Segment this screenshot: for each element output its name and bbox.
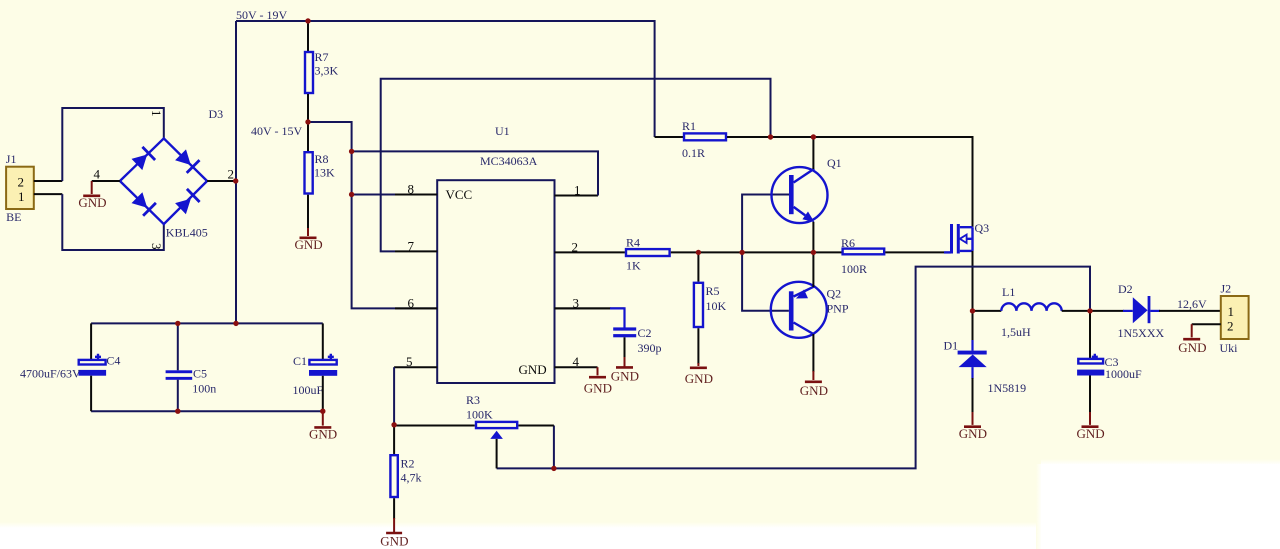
- connector J2: [1221, 296, 1249, 339]
- svg-text:R5: R5: [706, 284, 720, 298]
- resistor R7: [305, 52, 313, 93]
- svg-text:12,6V: 12,6V: [1177, 297, 1207, 311]
- svg-text:C1: C1: [293, 354, 307, 368]
- svg-text:100uF: 100uF: [293, 383, 324, 397]
- node dot: junction R3 right lead on feedback: [551, 466, 556, 471]
- wire: R3 right lead down: [553, 426, 555, 469]
- svg-text:GND: GND: [295, 237, 323, 252]
- svg-text:GND: GND: [309, 427, 337, 442]
- IC U1 MC34063A: [437, 180, 554, 383]
- node dot: junction comparator wire: [349, 149, 354, 154]
- wire: R4 to Q1/Q2 bases and R6: [671, 251, 842, 253]
- diode bottom-right arm: [175, 189, 200, 214]
- wire: L1 to output node: [1062, 310, 1090, 312]
- bridge pin 2 lead: [207, 180, 236, 182]
- node dot: junction R5 top: [696, 250, 701, 255]
- pin 4: [555, 366, 598, 368]
- wire: feedback from output: [497, 267, 1090, 469]
- capacitor C4: [90, 323, 92, 359]
- wire: vertical from top bus down to cap bank: [235, 21, 237, 323]
- pin J1-2: [34, 180, 63, 182]
- potentiometer R3: [394, 425, 475, 427]
- Q2 collector to ground: [812, 334, 814, 372]
- resistor R4: [626, 249, 670, 256]
- svg-text:U1: U1: [495, 124, 510, 138]
- J2 pin 2 lead: [1192, 323, 1221, 325]
- Q1 collector: [812, 137, 814, 169]
- svg-text:1000uF: 1000uF: [1105, 367, 1142, 381]
- svg-text:1K: 1K: [626, 259, 641, 273]
- svg-text:D2: D2: [1118, 282, 1133, 296]
- wire: J1 pin1 down and to bridge bottom: [62, 194, 164, 250]
- diode bottom-left arm: [132, 192, 156, 216]
- svg-text:100K: 100K: [466, 408, 493, 422]
- svg-text:1,5uH: 1,5uH: [1001, 325, 1031, 339]
- resistor R5: [697, 252, 699, 281]
- svg-text:Uki: Uki: [1220, 341, 1239, 355]
- svg-text:40V - 15V: 40V - 15V: [251, 124, 302, 138]
- Q3 source down to switch node: [972, 251, 974, 311]
- svg-text:3: 3: [149, 243, 164, 250]
- capacitor C3: [1089, 311, 1091, 359]
- ground bridge pin4: [91, 181, 93, 194]
- svg-text:R2: R2: [401, 457, 415, 471]
- svg-text:R7: R7: [315, 50, 329, 64]
- R3 wiper arrow: [490, 431, 503, 439]
- ground C2: [624, 357, 626, 367]
- pin J1-1: [34, 193, 63, 195]
- capacitor C5: [177, 323, 179, 370]
- svg-text:100R: 100R: [841, 262, 867, 276]
- connector J1: [6, 167, 34, 209]
- svg-text:GND: GND: [584, 381, 612, 396]
- svg-text:4700uF/63V: 4700uF/63V: [20, 367, 81, 381]
- cap bank top rail: [91, 322, 323, 324]
- svg-text:4: 4: [94, 167, 101, 182]
- resistor R6: [843, 249, 885, 255]
- ground C3: [1089, 412, 1091, 425]
- svg-text:4: 4: [573, 354, 580, 369]
- svg-text:GND: GND: [800, 383, 828, 398]
- pin 6: [395, 307, 437, 309]
- svg-text:KBL405: KBL405: [166, 226, 208, 240]
- resistor R8: [305, 152, 313, 193]
- svg-text:7: 7: [408, 239, 415, 254]
- svg-text:R1: R1: [682, 119, 696, 133]
- svg-text:GND: GND: [78, 195, 106, 210]
- node dot: node R7 top on 50V bus: [305, 18, 310, 23]
- svg-text:3,3K: 3,3K: [315, 64, 339, 78]
- svg-text:R8: R8: [315, 152, 329, 166]
- svg-text:GND: GND: [1178, 340, 1206, 355]
- svg-text:D1: D1: [944, 339, 959, 353]
- svg-text:1: 1: [18, 189, 25, 204]
- svg-text:GND: GND: [611, 369, 639, 384]
- wire: big loop pin7 to drive rail: [381, 79, 771, 252]
- ground R5: [697, 363, 699, 366]
- wire: R6 to Q3 gate: [885, 251, 944, 253]
- node dot: junction drive rail at R1: [768, 134, 773, 139]
- svg-text:GND: GND: [959, 426, 987, 441]
- node dot: junction Q1/Q2 emitters and R6: [811, 250, 816, 255]
- svg-text:L1: L1: [1002, 285, 1015, 299]
- svg-text:6: 6: [408, 296, 415, 311]
- resistor R1: [655, 136, 683, 138]
- wire: J1 pin2 up and over to bridge top: [62, 108, 164, 181]
- white margin strip bottom: [0, 522, 1280, 528]
- node dot: junction Q1 collector rail: [811, 134, 816, 139]
- pin 5: [394, 366, 437, 368]
- svg-text:10K: 10K: [706, 299, 727, 313]
- svg-text:BE: BE: [6, 210, 21, 224]
- svg-text:0.1R: 0.1R: [682, 146, 705, 160]
- wire to pin 8: [352, 194, 400, 196]
- diode D2: [1090, 310, 1124, 312]
- svg-text:1: 1: [1228, 304, 1235, 319]
- ground J2: [1191, 324, 1193, 337]
- capacitor C1: [322, 323, 324, 360]
- svg-text:VCC: VCC: [446, 187, 473, 202]
- svg-text:C5: C5: [193, 367, 207, 381]
- svg-text:1: 1: [574, 183, 581, 198]
- svg-text:MC34063A: MC34063A: [480, 154, 538, 168]
- svg-text:13K: 13K: [314, 166, 335, 180]
- svg-text:4,7k: 4,7k: [401, 471, 422, 485]
- wire: R7/R8 divider vertical: [307, 21, 309, 51]
- wire: 40V-15V to U1 column: [308, 122, 437, 308]
- svg-text:Q1: Q1: [827, 156, 842, 170]
- node dot: junction switch node at D1: [970, 308, 975, 313]
- svg-text:100n: 100n: [192, 382, 216, 396]
- svg-text:1: 1: [149, 110, 164, 117]
- ground U1 pin4: [597, 367, 599, 375]
- wire: 50V-19V top bus: [236, 21, 655, 137]
- node dot: junction bridge output: [233, 178, 238, 183]
- svg-text:50V - 19V: 50V - 19V: [236, 8, 287, 22]
- svg-text:GND: GND: [380, 534, 408, 549]
- svg-text:GND: GND: [519, 362, 547, 377]
- diode D1: [972, 311, 974, 341]
- resistor R2: [393, 425, 395, 454]
- svg-text:2: 2: [1227, 319, 1234, 334]
- cap bank bottom rail: [91, 410, 323, 412]
- ground R2: [393, 518, 395, 533]
- ground D1: [972, 412, 974, 425]
- node dot: junction C1 bottom / ground tie: [320, 409, 325, 414]
- svg-text:GND: GND: [685, 371, 713, 386]
- svg-text:R6: R6: [841, 236, 855, 250]
- capacitor C2: [555, 307, 612, 309]
- svg-text:PNP: PNP: [827, 302, 849, 316]
- pin 2: [555, 251, 625, 253]
- node dot: node 40V-15V divider tap: [305, 119, 310, 124]
- transistor Q1: [772, 167, 828, 223]
- svg-text:Q3: Q3: [975, 221, 990, 235]
- svg-text:D3: D3: [209, 107, 224, 121]
- Q1 emitter wire: [812, 222, 814, 253]
- wire: pin5 down to R2/R3 node: [393, 367, 395, 425]
- svg-text:Q2: Q2: [827, 287, 842, 301]
- svg-text:1N5819: 1N5819: [988, 381, 1027, 395]
- svg-text:R4: R4: [626, 236, 640, 250]
- diode top-left arm: [132, 147, 156, 170]
- mosfet Q3: [944, 251, 951, 253]
- ground C1: [322, 411, 324, 425]
- node dot: junction base column: [739, 250, 744, 255]
- node dot: junction cap bank top rail: [233, 321, 238, 326]
- svg-text:C4: C4: [106, 354, 120, 368]
- node dot: junction C5 bottom: [175, 409, 180, 414]
- pin 3: [555, 307, 625, 309]
- node dot: junction C5 top: [175, 321, 180, 326]
- pin 1: [555, 195, 599, 197]
- svg-text:R3: R3: [466, 393, 480, 407]
- inductor L1: [1001, 303, 1061, 311]
- transistor Q2: [771, 282, 827, 338]
- svg-text:8: 8: [408, 182, 415, 197]
- svg-text:J2: J2: [1221, 282, 1232, 296]
- svg-text:5: 5: [406, 354, 413, 369]
- svg-text:390p: 390p: [638, 341, 662, 355]
- Q2 emitter wire: [812, 252, 814, 287]
- wire: pin8 node to feedback comparator loop: [352, 151, 598, 195]
- wire: R7 bottom to R8 top: [307, 94, 309, 151]
- svg-text:GND: GND: [1077, 426, 1105, 441]
- svg-text:2: 2: [572, 240, 579, 255]
- ground R8: [307, 228, 309, 236]
- pin 7: [395, 250, 437, 252]
- svg-text:C2: C2: [638, 326, 652, 340]
- wire: base column Q1/Q2: [742, 195, 789, 253]
- svg-text:J1: J1: [6, 152, 17, 166]
- wire: R1 output rail to Q3 drain: [727, 137, 973, 227]
- switch node to L1: [973, 310, 1002, 312]
- svg-text:2: 2: [228, 167, 235, 182]
- bridge pin 4 lead: [92, 180, 120, 182]
- node dot: junction R2/R3 node: [391, 422, 396, 427]
- svg-text:2: 2: [18, 175, 25, 190]
- node dot: junction output node L1/C3/D2: [1087, 308, 1092, 313]
- white rectangle bottom-right: [1036, 464, 1042, 549]
- diode top-right arm: [175, 149, 199, 173]
- pin 8: [395, 194, 437, 196]
- node dot: junction pin 8 feed: [349, 192, 354, 197]
- svg-text:1N5XXX: 1N5XXX: [1118, 326, 1165, 340]
- wire: R8 bottom lead: [307, 195, 309, 229]
